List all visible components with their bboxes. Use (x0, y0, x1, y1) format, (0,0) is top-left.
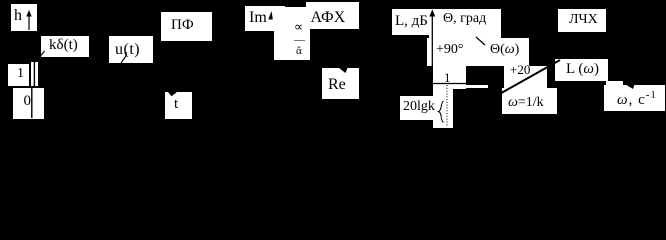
wire L axis arrow (429, 10, 435, 84)
wire omega axis tab (606, 81, 623, 86)
node L(omega) label box (555, 59, 608, 81)
wire Re axis notch arrow (339, 68, 348, 73)
wire impulse vertical line (33, 62, 35, 87)
node LCH title box (558, 9, 606, 32)
node 1 label box (8, 64, 29, 86)
wire dotted strip (433, 88, 453, 128)
node PF title box (161, 12, 212, 41)
wire omega axis notch (626, 85, 635, 90)
node +90 deg / Theta(omega) band (427, 38, 529, 67)
wire impulse strip right (32, 88, 44, 119)
wire 0dB line sliver (466, 85, 488, 88)
node t axis label box (165, 92, 192, 119)
node 20lgk label box (400, 96, 435, 120)
node 0 label box (13, 88, 32, 119)
node +20 slope label box (504, 66, 547, 88)
wire h axis arrow (26, 10, 31, 30)
wire t axis notch (168, 92, 177, 96)
wire 0dB axis line (427, 83, 488, 85)
wire +20 slope diagonal (496, 60, 560, 96)
node k delta(t) label box (41, 36, 89, 57)
wire impulse strip (31, 62, 38, 86)
wire dotted drop line (446, 85, 448, 127)
node L dB axis label box (392, 9, 430, 35)
node h axis label box (11, 4, 37, 31)
node u(t) label box (109, 36, 153, 63)
node 1 tick strip (433, 66, 466, 89)
wire u(t) step curve (120, 52, 127, 72)
wire theta tick (476, 37, 485, 45)
wire Im axis arrow (268, 11, 273, 20)
node omega strip (274, 7, 310, 60)
node Im axis label box (245, 6, 285, 31)
node omega c^-1 label box (604, 85, 665, 111)
node omega=1/k label box (502, 88, 557, 114)
node AFH title box (306, 2, 359, 29)
wire k delta tick (39, 51, 45, 59)
node Theta grad axis label box (429, 9, 501, 38)
node Re label box (322, 68, 359, 99)
wire 20lgk brace (439, 101, 444, 123)
